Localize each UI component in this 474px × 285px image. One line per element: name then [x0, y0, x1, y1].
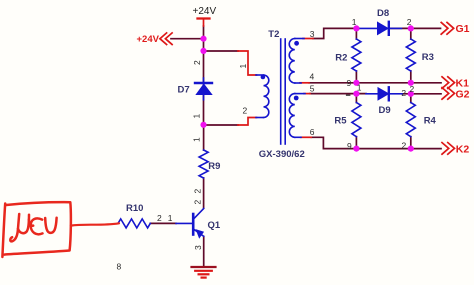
- svg-text:2: 2: [243, 106, 248, 116]
- svg-text:2: 2: [193, 189, 203, 194]
- svg-text:3: 3: [310, 29, 315, 39]
- svg-text:1: 1: [168, 213, 173, 223]
- svg-text:D8: D8: [377, 8, 389, 19]
- svg-text:2: 2: [401, 88, 406, 98]
- svg-text:1: 1: [352, 17, 357, 27]
- svg-text:R4: R4: [424, 116, 437, 127]
- svg-text:D9: D9: [379, 105, 391, 116]
- svg-text:2: 2: [193, 200, 203, 205]
- svg-text:D7: D7: [178, 84, 190, 95]
- svg-text:9: 9: [347, 141, 352, 151]
- svg-text:G2: G2: [456, 88, 470, 100]
- svg-text:T2: T2: [268, 29, 279, 40]
- svg-text:2: 2: [402, 141, 407, 151]
- svg-text:R2: R2: [335, 52, 347, 63]
- svg-text:1: 1: [192, 137, 202, 142]
- svg-text:2: 2: [407, 17, 412, 27]
- svg-text:Q1: Q1: [208, 220, 221, 231]
- svg-text:8: 8: [117, 262, 122, 272]
- svg-text:9: 9: [347, 78, 352, 88]
- svg-text:+24V: +24V: [193, 6, 217, 17]
- svg-text:3: 3: [193, 245, 203, 250]
- svg-text:2: 2: [410, 84, 415, 94]
- svg-text:GX-390/62: GX-390/62: [259, 149, 305, 160]
- svg-text:5: 5: [310, 83, 315, 93]
- svg-text:R3: R3: [422, 52, 434, 63]
- svg-text:1: 1: [357, 83, 362, 93]
- svg-text:R10: R10: [126, 203, 143, 214]
- svg-text:G1: G1: [456, 23, 470, 35]
- svg-text:R5: R5: [334, 116, 347, 127]
- svg-text:2: 2: [157, 213, 162, 223]
- svg-text:2: 2: [192, 60, 202, 65]
- svg-text:1: 1: [238, 64, 248, 69]
- svg-text:1: 1: [192, 114, 202, 119]
- svg-text:+24V: +24V: [137, 34, 160, 45]
- svg-text:4: 4: [310, 72, 315, 82]
- svg-text:R9: R9: [208, 161, 220, 172]
- svg-text:6: 6: [310, 127, 315, 137]
- svg-text:K2: K2: [456, 143, 470, 155]
